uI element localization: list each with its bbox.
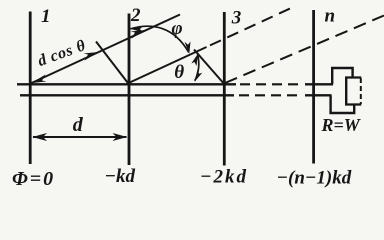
feeder top wire solid <box>17 83 236 85</box>
wire top loop to load <box>332 68 352 84</box>
phi arc arrowhead at ray 2 <box>185 42 191 54</box>
svg-text:2: 2 <box>130 5 141 26</box>
theta arc bottom arrowhead <box>195 70 203 82</box>
svg-text:φ: φ <box>172 18 183 39</box>
theta angle arc <box>195 55 199 81</box>
phi arc arrowhead at antenna 2 <box>130 26 144 33</box>
load resistor R=W box <box>345 78 361 105</box>
antenna element 1 <box>29 12 32 165</box>
antenna element 2 <box>128 14 131 166</box>
svg-text:1: 1 <box>41 6 51 27</box>
feeder bottom wire dashed <box>239 94 302 96</box>
feeder top wire dashed <box>240 83 303 85</box>
svg-text:d: d <box>73 114 84 136</box>
svg-text:−kd: −kd <box>105 166 136 187</box>
arrowhead at wavefront foot (d cos θ upper end) <box>84 52 99 61</box>
wavefront from antenna 3 base <box>194 50 224 85</box>
feeder top wire right solid <box>305 83 333 85</box>
feeder bottom wire solid <box>20 94 234 96</box>
theta arc top arrowhead <box>191 54 198 66</box>
dashed ray from antenna 3 <box>225 16 384 84</box>
d spacing dimension arrow <box>33 136 127 138</box>
svg-text:R=W: R=W <box>321 115 362 135</box>
svg-text:n: n <box>325 6 336 27</box>
phi angle arc <box>131 26 189 52</box>
svg-text:θ: θ <box>174 62 184 83</box>
ray from antenna 2 solid part <box>130 47 207 83</box>
svg-text:Φ=0: Φ=0 <box>12 168 55 190</box>
wire bottom loop to load <box>331 95 355 113</box>
arrowhead on ray 1 past antenna 2 <box>131 30 146 39</box>
wavefront from antenna 2 base <box>96 42 129 85</box>
antenna element 3 <box>223 12 226 166</box>
feeder bottom wire right solid <box>305 94 332 96</box>
arrowhead at antenna-1 base (d cos θ lower end) <box>32 75 47 84</box>
ray from antenna 1 at angle theta <box>31 15 181 84</box>
svg-text:−(n−1)kd: −(n−1)kd <box>277 168 352 189</box>
antenna element n <box>312 10 315 164</box>
svg-text:3: 3 <box>231 7 242 28</box>
ray from antenna 2 dashed continuation <box>210 8 292 46</box>
svg-text:−2kd: −2kd <box>200 167 248 188</box>
